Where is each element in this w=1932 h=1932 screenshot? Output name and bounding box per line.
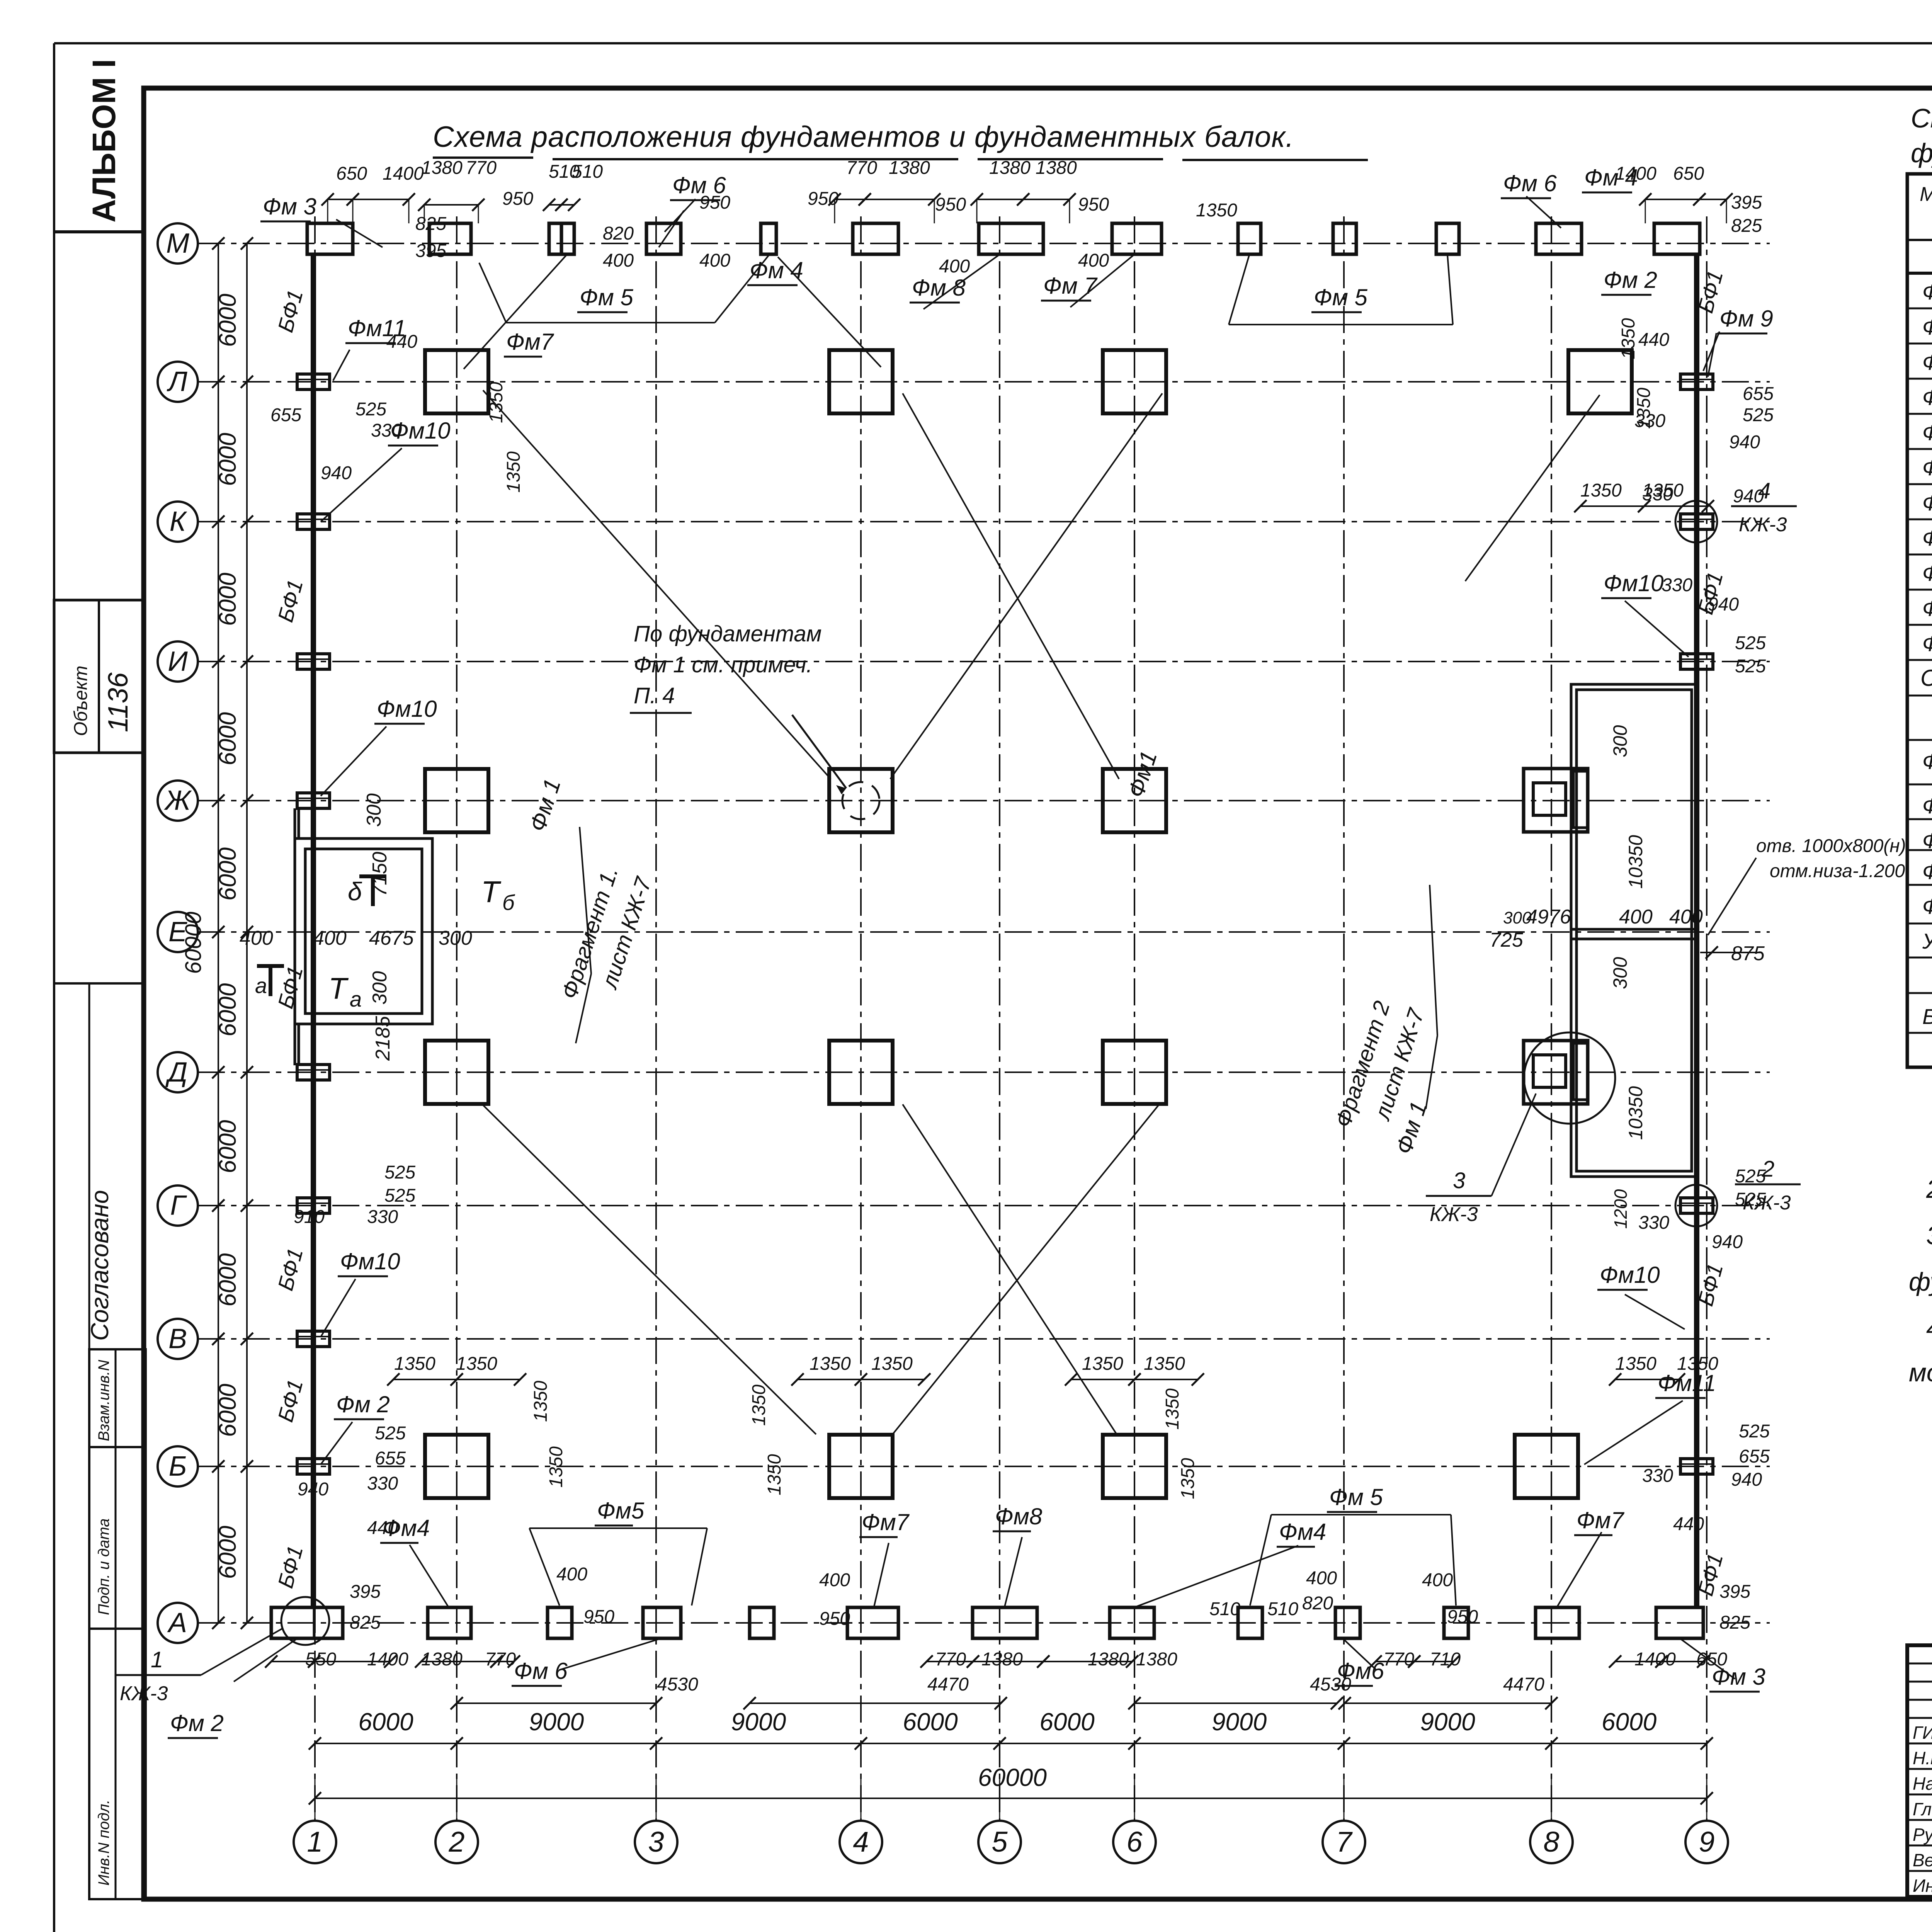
svg-text:400: 400: [313, 927, 347, 949]
svg-text:В: В: [168, 1323, 187, 1354]
svg-text:1350: 1350: [1618, 318, 1639, 359]
svg-text:1350: 1350: [456, 1354, 497, 1374]
svg-text:4530: 4530: [1310, 1674, 1351, 1695]
specification rows ФБ: [1922, 749, 1932, 918]
svg-text:395: 395: [350, 1582, 381, 1602]
fragment 1 bracket label: [557, 827, 657, 1043]
svg-text:Фм 8: Фм 8: [912, 275, 966, 301]
svg-text:1350: 1350: [749, 1384, 769, 1426]
interior foundations Fm1 grid: [425, 350, 1166, 1498]
svg-text:395: 395: [1719, 1582, 1750, 1602]
svg-text:1380: 1380: [1136, 1649, 1177, 1670]
svg-text:330: 330: [1638, 1213, 1669, 1233]
svg-text:Фм 1 см. примеч.: Фм 1 см. примеч.: [634, 652, 813, 677]
svg-text:4: 4: [853, 1826, 869, 1858]
svg-text:950: 950: [819, 1609, 850, 1629]
svg-text:Согласовано: Согласовано: [86, 1190, 114, 1341]
composite foundation Ж-8 Фм10: [1524, 769, 1588, 832]
album strip box: [54, 59, 144, 232]
Фм5 bracket bottom right: [1250, 1515, 1456, 1605]
notes list: [1909, 1128, 1932, 1387]
svg-text:δ: δ: [348, 877, 362, 906]
top mini dimension lines: [321, 193, 1733, 223]
svg-text:Б: Б: [169, 1451, 187, 1482]
svg-text:Схема расположения фундаменто: Схема расположения фундаментов и фундаме…: [433, 121, 1294, 153]
svg-text:Фм8: Фм8: [995, 1503, 1043, 1529]
row grid lines axes А-М: [198, 243, 1770, 1623]
svg-text:770: 770: [485, 1649, 516, 1670]
foundation beam BF1 axis 9: [1694, 255, 1699, 1607]
svg-text:1350: 1350: [810, 1354, 851, 1374]
svg-text:400: 400: [240, 927, 273, 949]
svg-text:820: 820: [1302, 1593, 1333, 1614]
svg-text:Л: Л: [167, 366, 187, 397]
svg-text:Фм 7: Фм 7: [1922, 491, 1932, 515]
svg-text:Фм 9: Фм 9: [1719, 306, 1773, 332]
svg-text:а: а: [350, 987, 362, 1011]
svg-text:60000: 60000: [978, 1764, 1047, 1791]
svg-text:6000: 6000: [1039, 1708, 1095, 1736]
svg-text:Фм 7: Фм 7: [1043, 273, 1098, 299]
svg-text:400: 400: [556, 1564, 587, 1585]
svg-text:300: 300: [369, 971, 391, 1005]
svg-text:1350: 1350: [1615, 1354, 1656, 1374]
svg-text:Фм 4: Фм 4: [1922, 385, 1932, 410]
svg-text:Гл. констр.: Гл. констр.: [1913, 1799, 1932, 1819]
svg-text:Фм 2: Фм 2: [336, 1391, 390, 1417]
svg-text:Фм10: Фм10: [1600, 1262, 1660, 1288]
svg-text:3: 3: [1453, 1168, 1465, 1193]
svg-text:655: 655: [270, 405, 301, 425]
svg-text:1350: 1350: [1178, 1458, 1198, 1499]
svg-text:1350: 1350: [503, 451, 524, 493]
soglasovano strip lines: [54, 983, 144, 1349]
svg-text:950: 950: [935, 194, 966, 215]
svg-text:А: А: [167, 1607, 187, 1638]
fragment 2 bracket label: [1330, 885, 1437, 1130]
svg-text:330: 330: [367, 1473, 398, 1494]
svg-text:400: 400: [1669, 906, 1703, 928]
svg-text:820: 820: [603, 223, 634, 244]
svg-text:400: 400: [939, 256, 970, 277]
svg-text:ФБ6: ФБ6: [1922, 894, 1932, 918]
bottom mini dimension lines: [265, 1655, 1709, 1709]
svg-text:Фм10: Фм10: [377, 696, 437, 722]
svg-text:Фм4: Фм4: [1279, 1519, 1326, 1545]
svg-text:Фм9: Фм9: [1922, 561, 1932, 585]
svg-text:525: 525: [1743, 405, 1774, 425]
svg-text:6000: 6000: [214, 294, 241, 347]
right beam mini dims: [1634, 384, 1774, 1534]
svg-text:4470: 4470: [1503, 1674, 1544, 1695]
svg-text:6000: 6000: [214, 712, 241, 765]
svg-text:АЛЬБОМ I: АЛЬБОМ I: [86, 59, 122, 223]
svg-text:Фм 5: Фм 5: [1329, 1484, 1383, 1510]
svg-text:1350: 1350: [1642, 480, 1684, 501]
svg-text:1350: 1350: [1162, 1388, 1183, 1430]
svg-text:525: 525: [375, 1423, 406, 1444]
svg-text:6000: 6000: [1602, 1708, 1657, 1736]
svg-text:825: 825: [1731, 216, 1762, 236]
svg-text:825: 825: [415, 214, 446, 234]
svg-text:Ж: Ж: [164, 785, 192, 816]
svg-text:60000: 60000: [181, 912, 206, 974]
svg-text:395: 395: [415, 241, 446, 261]
specification table grid: [1907, 174, 1932, 1067]
svg-text:655: 655: [375, 1448, 406, 1469]
svg-text:Рук.сект.: Рук.сект.: [1913, 1825, 1932, 1845]
svg-text:440: 440: [367, 1518, 398, 1538]
svg-text:395: 395: [1731, 192, 1762, 213]
svg-text:ФБ1: ФБ1: [1922, 749, 1932, 774]
svg-text:4530: 4530: [657, 1674, 698, 1695]
svg-text:1380: 1380: [421, 1649, 463, 1670]
svg-text:10350: 10350: [1625, 1086, 1646, 1140]
svg-text:10350: 10350: [1625, 835, 1646, 889]
svg-text:1350: 1350: [1677, 1354, 1718, 1374]
Фм5 bracket bottom left: [529, 1528, 707, 1605]
podp i data box: [89, 1447, 146, 1629]
svg-text:Подп. и дата: Подп. и дата: [95, 1519, 112, 1615]
svg-text:Фм10: Фм10: [1604, 570, 1664, 596]
svg-text:1200: 1200: [1611, 1189, 1631, 1229]
svg-text:отв. 1000x800(н): отв. 1000x800(н): [1756, 836, 1906, 856]
svg-text:6000: 6000: [214, 1526, 241, 1579]
svg-text:Инжен.: Инжен.: [1913, 1876, 1932, 1896]
svg-text:400: 400: [819, 1570, 850, 1590]
svg-text:9000: 9000: [529, 1708, 584, 1736]
svg-text:400: 400: [1422, 1570, 1453, 1590]
svg-text:Спецификация к схеме распол: Спецификация к схеме расположения: [1911, 103, 1932, 133]
svg-text:6000: 6000: [214, 983, 241, 1037]
svg-text:950: 950: [1078, 194, 1109, 215]
svg-text:400: 400: [1306, 1568, 1337, 1588]
svg-text:Фм10: Фм10: [1922, 596, 1932, 621]
svg-text:525: 525: [1735, 1189, 1766, 1210]
row Ум: [1922, 927, 1932, 953]
svg-text:Фм7: Фм7: [1577, 1507, 1625, 1533]
svg-text:КЖ-3: КЖ-3: [120, 1682, 168, 1705]
svg-text:фундаментных балок см. лист: фундаментных балок см. лист КЖ-3.: [1909, 1267, 1932, 1296]
svg-text:6000: 6000: [214, 1253, 241, 1307]
svg-text:1: 1: [151, 1647, 163, 1672]
left vertical dimension chain 6000x10: [181, 237, 253, 1629]
stamp signature rows: [1913, 1721, 1932, 1896]
BF1 labels left beam: [273, 287, 308, 1590]
top mini dimensions: [336, 158, 1762, 352]
svg-text:9000: 9000: [1420, 1708, 1475, 1736]
svg-text:6000: 6000: [214, 433, 241, 486]
bottom edge foundations row A: [271, 1607, 1703, 1638]
svg-text:650: 650: [336, 163, 367, 184]
svg-text:1350: 1350: [871, 1354, 913, 1374]
fragment 2 dims: [1490, 725, 1906, 1229]
svg-text:330: 330: [1642, 1466, 1673, 1486]
fragment 1 room outline: [295, 808, 432, 1065]
Фм5 bracket top right: [1229, 255, 1453, 325]
svg-text:7: 7: [1336, 1826, 1353, 1858]
svg-text:770: 770: [935, 1649, 966, 1670]
node 3 label КЖ-3: [1426, 1094, 1536, 1226]
svg-text:ФБ3: ФБ3: [1922, 828, 1932, 853]
left beam mini dims: [270, 399, 415, 1538]
svg-text:П. 4: П. 4: [634, 683, 675, 708]
svg-text:Ум: Ум: [1922, 929, 1932, 953]
row БФ1: [1922, 1004, 1932, 1029]
svg-text:Вед.инж: Вед.инж: [1913, 1850, 1932, 1870]
svg-text:655: 655: [1739, 1446, 1770, 1467]
svg-text:Фм1: Фм1: [1922, 280, 1932, 304]
object 1136 box: [54, 600, 144, 753]
svg-text:1350: 1350: [531, 1381, 551, 1422]
svg-text:Фм 2: Фм 2: [1604, 267, 1657, 293]
svg-text:510: 510: [1209, 1599, 1240, 1619]
top edge foundations row M: [307, 223, 1700, 254]
svg-text:525: 525: [1735, 1166, 1766, 1187]
svg-text:1350: 1350: [1634, 388, 1654, 429]
svg-text:6000: 6000: [214, 847, 241, 901]
svg-text:7150: 7150: [369, 852, 391, 896]
svg-text:825: 825: [1719, 1612, 1750, 1633]
bottom horizontal dimension chains: [309, 1708, 1713, 1804]
svg-text:5: 5: [992, 1826, 1008, 1858]
svg-text:6000: 6000: [214, 573, 241, 626]
svg-text:монтажа см. лист КЖ-4.: монтажа см. лист КЖ-4.: [1909, 1358, 1932, 1387]
svg-text:Фм 3: Фм 3: [1922, 350, 1932, 374]
svg-text:9: 9: [1699, 1826, 1714, 1858]
svg-text:Фм 6: Фм 6: [514, 1658, 568, 1684]
drawing title: [433, 121, 1368, 160]
svg-text:1380: 1380: [1088, 1649, 1129, 1670]
svg-text:1350: 1350: [546, 1446, 566, 1488]
svg-text:ГИП: ГИП: [1913, 1723, 1932, 1743]
svg-text:Т: Т: [481, 875, 502, 909]
svg-text:Т: Т: [328, 971, 349, 1005]
svg-text:940: 940: [1708, 594, 1739, 615]
svg-text:400: 400: [699, 250, 730, 271]
svg-text:1380: 1380: [1036, 158, 1077, 178]
svg-text:950: 950: [502, 189, 533, 209]
svg-text:6000: 6000: [358, 1708, 413, 1736]
svg-text:фундаментов и фундаментных: фундаментов и фундаментных балок.: [1911, 138, 1932, 168]
svg-text:950: 950: [699, 192, 730, 213]
svg-text:1350: 1350: [1082, 1354, 1123, 1374]
vzam inv box: [89, 1349, 146, 1447]
svg-text:1380: 1380: [989, 158, 1031, 178]
svg-text:б: б: [502, 890, 515, 915]
svg-text:525: 525: [1735, 656, 1766, 677]
svg-text:440: 440: [1638, 330, 1669, 350]
svg-text:1350: 1350: [1580, 480, 1622, 501]
svg-text:440: 440: [386, 332, 417, 352]
row Б/Л 1350 dims: [394, 200, 1718, 1499]
svg-text:1350: 1350: [394, 1354, 435, 1374]
node 1 circle КЖ-3: [116, 1597, 329, 1705]
svg-text:Фм 6: Фм 6: [1503, 170, 1557, 196]
svg-text:Фм8: Фм8: [1922, 526, 1932, 550]
svg-text:525: 525: [1735, 633, 1766, 653]
section header sbornye: [1920, 665, 1932, 691]
svg-text:2. Узлы 1÷4 и вид„А" см. ли: 2. Узлы 1÷4 и вид„А" см. лист КЖ-3: [1926, 1175, 1932, 1204]
fragment 1 labels: [240, 793, 515, 1061]
beam block foundations on axis 9: [1680, 374, 1713, 1474]
svg-text:Фм10: Фм10: [340, 1248, 400, 1274]
svg-text:ФБ4: ФБ4: [1922, 859, 1932, 884]
dashed circle node P4 at Ж-4: [842, 782, 879, 819]
foundation beam BF1 axis 1: [311, 255, 316, 1607]
svg-text:1400: 1400: [367, 1649, 408, 1670]
svg-text:400: 400: [1619, 906, 1653, 928]
label leaders top: [336, 196, 1719, 371]
node 4 circle КЖ-3: [1675, 478, 1797, 543]
svg-text:300: 300: [439, 927, 472, 949]
svg-text:1: 1: [307, 1826, 323, 1858]
svg-text:770: 770: [466, 158, 497, 178]
BF1 labels right beam: [1693, 268, 1728, 1598]
svg-text:КЖ-3: КЖ-3: [1739, 514, 1787, 536]
specification rows Фм: [1922, 280, 1932, 656]
svg-text:ФБ2: ФБ2: [1922, 794, 1932, 818]
svg-text:2185: 2185: [372, 1015, 394, 1061]
svg-text:8: 8: [1543, 1826, 1559, 1858]
svg-text:4. Обетонирование металлическ: 4. Обетонирование металлических колонн п…: [1926, 1314, 1932, 1343]
Фм1 rotated labels: [524, 748, 1432, 1157]
svg-text:3. Применения к схеме распол: 3. Применения к схеме расположения фунда…: [1926, 1221, 1932, 1250]
svg-text:1400: 1400: [383, 163, 424, 184]
node 2 circle КЖ-3: [1675, 1156, 1801, 1226]
svg-text:1350: 1350: [1144, 1354, 1185, 1374]
svg-text:отм.низа-1.200: отм.низа-1.200: [1770, 861, 1905, 881]
svg-text:300: 300: [1609, 725, 1631, 757]
svg-text:770: 770: [846, 158, 877, 178]
svg-text:400: 400: [603, 250, 634, 271]
svg-text:Взам.инв.N: Взам.инв.N: [95, 1360, 112, 1441]
svg-text:Фм7: Фм7: [862, 1509, 910, 1535]
svg-text:525: 525: [355, 399, 386, 420]
svg-text:950: 950: [1447, 1607, 1478, 1627]
svg-text:Н.контр.: Н.контр.: [1913, 1748, 1932, 1768]
svg-text:440: 440: [1673, 1514, 1704, 1534]
svg-text:1380: 1380: [421, 158, 463, 178]
svg-text:Фм 4: Фм 4: [750, 257, 803, 283]
svg-text:1400: 1400: [1615, 163, 1656, 184]
svg-text:650: 650: [1696, 1649, 1727, 1670]
foundation labels: [260, 194, 316, 221]
svg-text:Фм11: Фм11: [1658, 1370, 1716, 1396]
diagonal leader lines: [234, 211, 1735, 1682]
svg-text:950: 950: [583, 1607, 614, 1627]
1350 dim lines rows Б and Л: [387, 500, 1714, 1386]
svg-text:Фм 2: Фм 2: [170, 1710, 224, 1736]
svg-text:По фундаментам: По фундаментам: [634, 621, 821, 646]
svg-text:940: 940: [1731, 1469, 1762, 1490]
svg-text:Фм5: Фм5: [597, 1498, 645, 1524]
Фм5 bracket top left: [479, 255, 769, 323]
svg-text:525: 525: [384, 1162, 415, 1183]
svg-text:3: 3: [648, 1826, 664, 1858]
left axis letter circles: [158, 223, 198, 1643]
right side foundation row Б Фм11: [1515, 1435, 1578, 1498]
svg-text:650: 650: [1673, 163, 1704, 184]
svg-text:Фм2: Фм2: [1922, 315, 1932, 339]
svg-text:940: 940: [321, 463, 352, 483]
svg-text:Фм11: Фм11: [1922, 631, 1932, 656]
svg-text:Д: Д: [165, 1057, 188, 1088]
svg-text:4675: 4675: [369, 927, 414, 949]
svg-text:Сборные железобетонные и бетон: Сборные железобетонные и бетонные констр…: [1920, 665, 1932, 691]
bottom mini dimensions: [305, 1564, 1750, 1695]
svg-text:525: 525: [1739, 1421, 1770, 1442]
svg-text:940: 940: [1729, 432, 1760, 452]
svg-text:510: 510: [572, 162, 603, 182]
svg-text:Фм 5: Фм 5: [1314, 284, 1367, 310]
svg-text:а: а: [255, 973, 267, 998]
svg-text:300: 300: [363, 793, 385, 827]
svg-text:Инв.N подл.: Инв.N подл.: [95, 1799, 112, 1886]
svg-text:400: 400: [1078, 250, 1109, 271]
svg-text:1380: 1380: [981, 1649, 1023, 1670]
svg-text:БФ1: БФ1: [1922, 1004, 1932, 1029]
svg-text:6000: 6000: [903, 1708, 958, 1736]
svg-text:825: 825: [350, 1612, 381, 1633]
svg-text:725: 725: [1490, 929, 1524, 951]
svg-text:И: И: [168, 646, 188, 677]
svg-text:Г: Г: [170, 1190, 187, 1221]
specification header texts: [1920, 183, 1932, 233]
svg-text:940: 940: [1733, 486, 1764, 507]
svg-text:Фм 5: Фм 5: [580, 284, 633, 310]
svg-text:330: 330: [371, 420, 402, 441]
svg-text:2: 2: [448, 1826, 464, 1858]
title block stamp grid: [1907, 1645, 1932, 1897]
svg-text:6000: 6000: [214, 1120, 241, 1173]
svg-text:1350: 1350: [764, 1454, 785, 1495]
svg-text:Марка,: Марка,: [1920, 183, 1932, 206]
beam block foundations on axis 1: [297, 374, 330, 1474]
svg-text:525: 525: [384, 1185, 415, 1206]
svg-text:300: 300: [1503, 908, 1532, 927]
column grid lines axes 1-9: [315, 216, 1707, 1821]
svg-text:330: 330: [367, 1207, 398, 1227]
specification title: [1911, 103, 1932, 168]
svg-text:9000: 9000: [731, 1708, 786, 1736]
svg-text:6000: 6000: [214, 1384, 241, 1437]
svg-text:Фм5: Фм5: [1922, 420, 1932, 445]
svg-text:940: 940: [1712, 1232, 1743, 1252]
svg-text:875: 875: [1731, 942, 1765, 965]
svg-text:КЖ-3: КЖ-3: [1430, 1203, 1478, 1226]
П.4 note block: [630, 621, 846, 794]
svg-text:655: 655: [1743, 384, 1774, 404]
svg-text:М: М: [166, 228, 189, 259]
svg-text:6: 6: [1126, 1826, 1143, 1858]
composite foundation Д-8 with node 3: [1524, 1032, 1615, 1124]
right side foundation row Л: [1568, 350, 1632, 413]
bottom axis number circles: [294, 1774, 1728, 1863]
svg-text:300: 300: [1609, 957, 1631, 989]
svg-text:510: 510: [1267, 1599, 1298, 1619]
svg-text:К: К: [170, 506, 187, 537]
svg-text:330: 330: [1662, 575, 1692, 595]
svg-text:910: 910: [294, 1207, 325, 1227]
svg-text:4470: 4470: [927, 1674, 969, 1695]
svg-text:Фм 3: Фм 3: [263, 194, 316, 219]
svg-text:9000: 9000: [1212, 1708, 1267, 1736]
svg-text:1380: 1380: [889, 158, 930, 178]
fragment 2 room outline: [1571, 684, 1697, 1177]
svg-text:Нач.отд.: Нач.отд.: [1913, 1774, 1932, 1794]
svg-text:4976: 4976: [1526, 906, 1571, 928]
